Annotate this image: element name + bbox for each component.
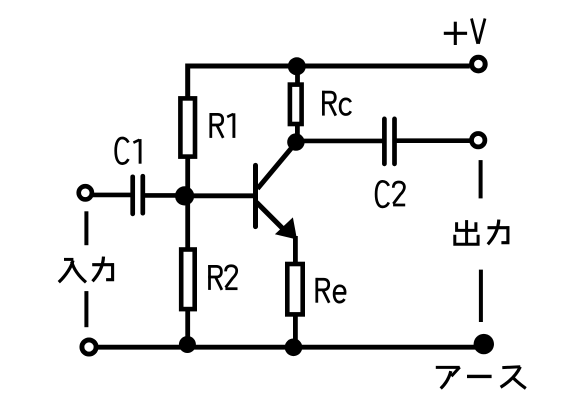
- label nyuuryoku kanji ryoku: [92, 257, 114, 282]
- transistor Q1 emitter stroke: [257, 202, 289, 234]
- transistor Q1 emitter arrow: [275, 217, 297, 239]
- wire C2 to output terminal: [397, 138, 470, 143]
- capacitor C2 plates: [384, 119, 394, 164]
- wire input stub lower dash: [84, 291, 88, 327]
- transistor Q1 collector stroke: [258, 144, 296, 189]
- terminal input open circle: [79, 186, 92, 199]
- wire top rail from R1 top corner to +V terminal: [188, 66, 470, 97]
- transistor Q1 base bar: [253, 165, 258, 226]
- wire Rc bottom to collector node: [295, 126, 300, 141]
- node dot Re ground: [285, 339, 303, 357]
- wire top node to Rc: [295, 66, 300, 84]
- wire output stub lower dash: [479, 270, 483, 322]
- label R2: [208, 265, 222, 290]
- node dot top rail: [288, 57, 306, 75]
- wire R2 bottom to ground rail: [185, 311, 190, 346]
- label Rc: [322, 91, 336, 116]
- wire bottom ground rail: [98, 345, 481, 350]
- wire R1 bottom to base node to R2 top: [185, 158, 190, 248]
- label C2: [376, 181, 389, 207]
- node dot collector: [287, 133, 304, 150]
- node dot R2 ground: [179, 336, 196, 353]
- wire input stub upper dash: [84, 211, 88, 245]
- wire C1 to base node: [145, 193, 185, 198]
- label shutsuryoku kanji ryoku: [488, 220, 510, 245]
- label shutsuryoku kanji shutsu: [455, 220, 478, 244]
- wire input terminal to C1: [93, 193, 131, 198]
- wire Re bottom to ground rail: [293, 316, 298, 347]
- terminal ground-left open circle: [82, 340, 96, 354]
- label earth katakana su: [501, 367, 526, 389]
- label earth katakana long dash: [467, 375, 492, 378]
- node dot earth terminal: [474, 334, 494, 354]
- label nyuuryoku kanji nyuu: [59, 259, 86, 282]
- label R1: [210, 113, 224, 138]
- resistor R1: [180, 98, 195, 156]
- capacitor C1 plates: [133, 176, 143, 214]
- wire output stub upper dash: [479, 160, 483, 198]
- resistor Re: [287, 264, 302, 314]
- wire base node to transistor base: [185, 193, 254, 198]
- wire collector node to C2: [302, 139, 383, 144]
- label +V: [444, 22, 467, 45]
- wire emitter to Re top: [293, 236, 298, 263]
- resistor Rc: [290, 85, 302, 124]
- terminal output open circle: [472, 134, 485, 147]
- label C1: [116, 138, 129, 164]
- label earth katakana a: [436, 367, 460, 388]
- resistor R2: [181, 250, 195, 310]
- label Re: [316, 278, 330, 303]
- terminal +V open circle: [472, 57, 486, 71]
- node dot base: [175, 186, 194, 205]
